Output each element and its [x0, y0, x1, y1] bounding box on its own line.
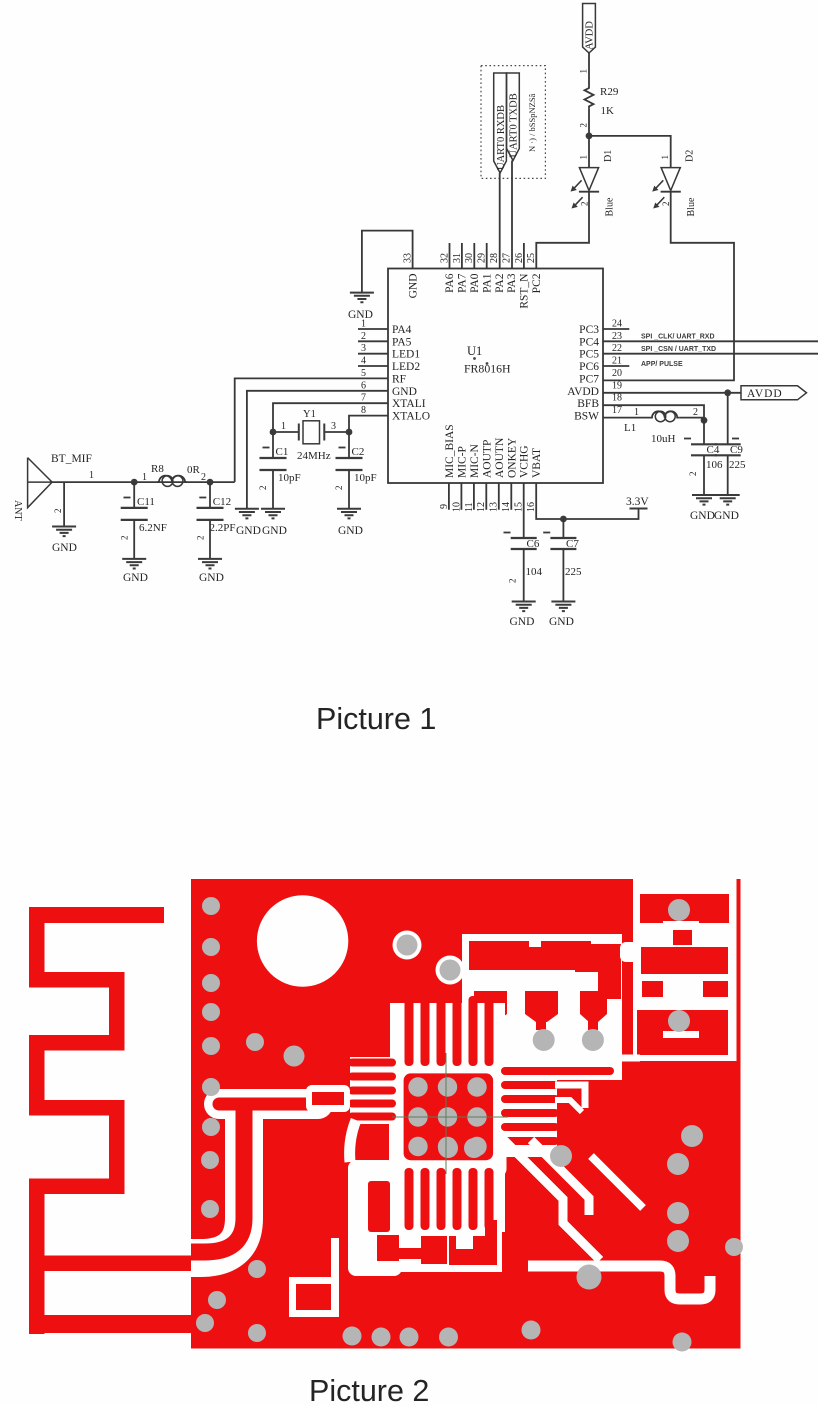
crystal Y1 24MHz	[273, 409, 349, 462]
svg-text:6: 6	[361, 380, 366, 391]
svg-text:PC3: PC3	[579, 324, 599, 336]
antenna feed bar upper	[29, 1256, 191, 1272]
svg-text:5: 5	[361, 368, 366, 379]
svg-text:27: 27	[501, 253, 512, 263]
node junction R29/D1/D2	[586, 133, 593, 140]
ground (antenna)	[52, 527, 76, 537]
svg-text:20: 20	[612, 368, 622, 379]
wire pin18 BFB	[603, 405, 704, 420]
svg-text:30: 30	[464, 253, 475, 263]
svg-text:R29: R29	[600, 86, 619, 98]
svg-text:AVDD: AVDD	[585, 21, 596, 50]
ground (C4)	[692, 495, 716, 505]
svg-text:GND: GND	[549, 616, 574, 628]
svg-text:14: 14	[501, 502, 512, 512]
svg-text:Picture 2: Picture 2	[309, 1374, 429, 1406]
wire D1 cathode to pin25	[536, 192, 589, 269]
svg-text:1K: 1K	[601, 105, 615, 117]
fanout right	[490, 1062, 557, 1157]
wire pin8 XTALO to crystal	[349, 416, 388, 432]
IC U1 FR8016H body	[388, 269, 603, 484]
left pins 1-8 stubs	[358, 329, 388, 366]
antenna feed bar lower	[29, 1315, 191, 1333]
via	[533, 1029, 555, 1051]
svg-text:104: 104	[526, 566, 543, 578]
svg-text:28: 28	[489, 253, 500, 263]
capacitor C4	[684, 420, 723, 495]
svg-text:225: 225	[729, 459, 746, 471]
ground (C9)	[716, 495, 740, 505]
svg-text:6.2NF: 6.2NF	[139, 522, 167, 534]
net flag UART0_TXDB	[507, 73, 520, 161]
svg-text:0R: 0R	[187, 464, 201, 476]
svg-text:PA1: PA1	[481, 273, 493, 293]
wire pin6 GND to ground	[247, 391, 388, 509]
svg-text:R8: R8	[151, 463, 164, 475]
svg-text:1: 1	[634, 407, 639, 418]
right column courtyards	[633, 879, 737, 1061]
svg-text:C1: C1	[276, 446, 289, 458]
via	[582, 1029, 604, 1051]
svg-text:23: 23	[612, 331, 622, 342]
svg-text:AVDD: AVDD	[567, 386, 599, 398]
svg-text:32: 32	[439, 253, 450, 263]
svg-text:1: 1	[142, 472, 147, 483]
wire node to D2 branch	[589, 136, 671, 168]
ground (C2)	[337, 509, 361, 519]
svg-text:AVDD: AVDD	[747, 388, 783, 400]
node junction AVDD/C9	[724, 389, 731, 396]
moat	[389, 1057, 507, 1178]
svg-text:GND: GND	[714, 510, 739, 522]
LED D1	[571, 150, 616, 217]
svg-text:19: 19	[612, 380, 622, 391]
capacitor C2	[334, 432, 377, 509]
routing channels right of IC	[548, 1055, 640, 1062]
node junction C12	[207, 479, 214, 486]
node junction VBAT/C7	[560, 516, 567, 523]
svg-text:N ·) / bSSpNZSâ: N ·) / bSSpNZSâ	[527, 93, 537, 152]
svg-text:MIC-N: MIC-N	[469, 443, 481, 478]
svg-text:18: 18	[612, 393, 622, 404]
top-center component courtyard	[462, 934, 622, 1074]
svg-text:4: 4	[361, 356, 366, 367]
svg-text:GND: GND	[199, 572, 224, 584]
svg-text:XTALI: XTALI	[392, 398, 426, 410]
thermal vias 3x3	[408, 1077, 486, 1156]
svg-text:Blue: Blue	[605, 197, 616, 216]
ground (pin33)	[350, 293, 374, 303]
svg-text:PA0: PA0	[469, 273, 481, 293]
svg-text:12: 12	[476, 502, 487, 512]
svg-text:GND: GND	[338, 525, 363, 537]
wire pin7 XTALI to crystal	[273, 403, 388, 432]
svg-text:1: 1	[281, 421, 286, 432]
svg-text:ONKEY: ONKEY	[506, 437, 518, 478]
svg-text:1: 1	[361, 319, 366, 330]
wire UART0_TXDB to pin27	[511, 161, 513, 269]
svg-text:MIC-P: MIC-P	[456, 446, 468, 478]
bottom courtyard frame	[289, 1277, 339, 1317]
fanout bottom	[390, 1165, 505, 1232]
svg-text:MIC_BIAS: MIC_BIAS	[444, 424, 456, 478]
svg-text:C7: C7	[566, 538, 579, 550]
bottom fanout tub cluster	[395, 1230, 502, 1272]
LED D2	[652, 150, 697, 217]
fanout left	[350, 1057, 407, 1124]
svg-text:1: 1	[579, 69, 589, 74]
wire pin22 SPI_CSN/UART_TXD	[603, 353, 818, 355]
svg-text:RF: RF	[392, 373, 406, 385]
svg-text:Blue: Blue	[686, 197, 697, 216]
svg-text:2: 2	[334, 486, 344, 491]
svg-text:29: 29	[477, 253, 488, 263]
svg-text:C6: C6	[527, 538, 540, 550]
svg-text:C11: C11	[137, 496, 155, 508]
svg-text:RST_N: RST_N	[519, 273, 531, 309]
ground (C1)	[261, 509, 285, 519]
svg-text:UART0 TXDB: UART0 TXDB	[509, 93, 520, 157]
right pin traces	[501, 1067, 614, 1145]
svg-text:PA6: PA6	[444, 273, 456, 293]
svg-text:2: 2	[201, 472, 206, 483]
top pin stubs 32-26	[449, 243, 451, 269]
node junction L1/BFB/C4	[701, 417, 708, 424]
svg-text:VBAT: VBAT	[531, 448, 543, 478]
svg-text:26: 26	[514, 253, 525, 263]
svg-text:2: 2	[120, 536, 130, 541]
svg-text:10pF: 10pF	[354, 472, 377, 484]
antenna meander trace	[29, 907, 164, 1051]
svg-text:C2: C2	[352, 446, 365, 458]
wire D2 cathode to pin20 PC7	[603, 192, 734, 381]
resistor R29	[585, 86, 594, 108]
wire pin15 VCHG to C6	[523, 483, 525, 538]
ground (C11)	[122, 559, 146, 569]
svg-text:BFB: BFB	[577, 398, 599, 410]
svg-text:2: 2	[693, 407, 698, 418]
wire pin16 VBAT to 3.3V	[536, 483, 638, 519]
node junction XTALI/C1	[270, 429, 277, 436]
ground (C7)	[551, 602, 575, 612]
svg-text:SPI _CLK/ UART_RXD: SPI _CLK/ UART_RXD	[641, 334, 715, 341]
svg-text:2: 2	[361, 331, 366, 342]
svg-text:PC7: PC7	[579, 373, 599, 385]
svg-text:24: 24	[612, 319, 622, 330]
svg-text:2: 2	[661, 202, 671, 207]
svg-text:PC2: PC2	[531, 273, 543, 293]
svg-text:GND: GND	[236, 525, 261, 537]
svg-text:1: 1	[579, 155, 589, 160]
svg-text:11: 11	[464, 502, 475, 512]
svg-text:2: 2	[195, 536, 205, 541]
board copper pour	[191, 879, 741, 1349]
wire pin17 BSW to L1	[603, 417, 650, 419]
svg-text:3: 3	[331, 421, 336, 432]
svg-text:2: 2	[258, 486, 268, 491]
svg-text:XTALO: XTALO	[392, 411, 430, 423]
via	[668, 1010, 690, 1032]
bottom-left clearance region	[350, 1120, 356, 1162]
antenna ANT	[12, 458, 52, 521]
top pin traces	[405, 996, 494, 1066]
courtyard crosshair lines	[445, 1053, 447, 1174]
wire pin5 RF to antenna line	[235, 378, 388, 482]
bottom pin stubs 9-16	[449, 483, 511, 510]
vias scattered	[196, 897, 743, 1352]
ground (C6)	[512, 602, 536, 612]
capacitor C9	[715, 393, 746, 495]
svg-text:10: 10	[451, 502, 462, 512]
svg-text:33: 33	[403, 253, 414, 263]
via	[668, 899, 690, 921]
svg-text:1: 1	[89, 470, 94, 481]
wire pin19 AVDD	[603, 392, 741, 394]
node junction XTALO/C2	[346, 429, 353, 436]
power flag AVDD (top)	[583, 4, 596, 54]
pin 21 stub APP PULSE	[603, 365, 629, 367]
fanout top	[390, 1003, 505, 1063]
wire AVDD to R29	[588, 53, 590, 86]
svg-text:10uH: 10uH	[651, 433, 676, 445]
svg-text:LED2: LED2	[392, 361, 420, 373]
pin 24 stub	[603, 328, 629, 330]
svg-text:AOUTP: AOUTP	[481, 440, 493, 478]
RF trace clearance (left)	[219, 1089, 318, 1119]
bottom pin traces	[405, 1168, 494, 1230]
svg-text:AOUTN: AOUTN	[494, 437, 506, 478]
svg-text:D2: D2	[685, 150, 696, 162]
svg-text:2: 2	[508, 579, 518, 584]
mounting hole (white circle)	[257, 895, 348, 986]
dotted annotation box	[481, 66, 545, 179]
svg-text:8: 8	[361, 405, 366, 416]
svg-text:2: 2	[579, 123, 589, 128]
svg-text:VCHG: VCHG	[519, 445, 531, 478]
svg-text:BSW: BSW	[574, 411, 599, 423]
svg-text:PA3: PA3	[506, 273, 518, 293]
svg-text:2: 2	[53, 509, 63, 514]
svg-text:C9: C9	[730, 444, 743, 456]
svg-text:PA4: PA4	[392, 324, 412, 336]
svg-text:PA2: PA2	[494, 273, 506, 293]
svg-text:1: 1	[660, 155, 670, 160]
capacitor C6	[504, 533, 543, 602]
svg-text:2: 2	[688, 472, 698, 477]
capacitor C1	[258, 432, 301, 509]
ground (pin6)	[235, 509, 259, 519]
svg-text:C12: C12	[213, 496, 231, 508]
svg-text:GND: GND	[407, 274, 419, 299]
svg-text:PC4: PC4	[579, 336, 599, 348]
svg-text:U1: U1	[467, 344, 482, 358]
capacitor C7	[543, 519, 582, 602]
svg-text:GND: GND	[123, 572, 148, 584]
svg-text:SPI _CSN / UART_TXD: SPI _CSN / UART_TXD	[641, 346, 716, 353]
power flag AVDD (right)	[741, 386, 807, 400]
svg-text:17: 17	[612, 405, 622, 416]
svg-text:L1: L1	[624, 422, 636, 434]
wire node to D1	[588, 136, 590, 168]
node junction C11	[131, 479, 138, 486]
wire antenna gnd branch	[63, 482, 65, 526]
svg-text:APP/ PULSE: APP/ PULSE	[641, 361, 683, 368]
wire UART0_RXDB to pin28	[499, 173, 501, 269]
svg-text:21: 21	[612, 356, 622, 367]
left pin traces	[348, 1059, 396, 1121]
svg-text:3.3V: 3.3V	[626, 496, 649, 508]
svg-text:PA5: PA5	[392, 336, 412, 348]
svg-text:7: 7	[361, 393, 366, 404]
power flag 3.3V	[630, 508, 648, 510]
capacitor C11	[120, 482, 167, 559]
svg-text:LED1: LED1	[392, 349, 420, 361]
net flag UART0_RXDB	[494, 73, 507, 173]
pin 33 GND wire to ground	[362, 231, 413, 293]
wire L1 to node	[679, 418, 704, 421]
center pad	[404, 1073, 494, 1160]
svg-text:PA7: PA7	[457, 273, 469, 293]
svg-text:2.2PF: 2.2PF	[210, 522, 236, 534]
inductor R8 0R	[142, 463, 206, 486]
svg-text:31: 31	[452, 253, 463, 263]
svg-text:106: 106	[706, 459, 723, 471]
svg-text:25: 25	[526, 253, 537, 263]
svg-text:GND: GND	[690, 510, 715, 522]
capacitor C12	[195, 482, 235, 559]
svg-text:PC5: PC5	[579, 349, 599, 361]
svg-text:PC6: PC6	[579, 361, 599, 373]
svg-text:3: 3	[361, 343, 366, 354]
svg-text:225: 225	[565, 566, 582, 578]
svg-text:GND: GND	[262, 525, 287, 537]
ground (C12)	[198, 559, 222, 569]
svg-text:GND: GND	[392, 386, 417, 398]
wire antenna to matching network	[52, 481, 235, 483]
wire pin23 SPI_CLK/UART_RXD	[603, 340, 818, 342]
component pads (3)	[474, 991, 507, 1022]
svg-text:10pF: 10pF	[278, 472, 301, 484]
svg-text:Picture 1: Picture 1	[316, 702, 436, 736]
svg-text:24MHz: 24MHz	[297, 450, 331, 462]
svg-text:GND: GND	[52, 542, 77, 554]
svg-text:UART0 RXDB: UART0 RXDB	[496, 105, 507, 170]
svg-text:D1: D1	[603, 150, 614, 162]
svg-text:GND: GND	[510, 616, 535, 628]
wire R29 to node	[588, 108, 590, 135]
svg-text:9: 9	[439, 504, 450, 509]
svg-text:BT_MIF: BT_MIF	[51, 453, 92, 465]
svg-text:Y1: Y1	[303, 409, 316, 420]
inductor L1	[650, 411, 679, 421]
svg-text:ANT: ANT	[12, 500, 23, 521]
svg-text:13: 13	[489, 502, 500, 512]
svg-text:22: 22	[612, 343, 622, 354]
svg-text:2: 2	[580, 202, 590, 207]
